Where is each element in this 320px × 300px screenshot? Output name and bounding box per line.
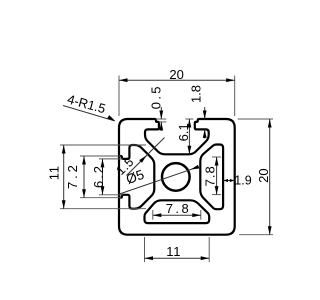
dim bottom 11 [144,237,146,262]
label 1.5 web [127,138,165,176]
svg-text:1.8: 1.8 [189,85,204,103]
svg-text:7.8: 7.8 [203,165,218,186]
svg-text:6.1: 6.1 [176,123,191,141]
svg-text:20: 20 [256,168,271,182]
svg-text:7.8: 7.8 [166,201,192,216]
center hole [162,163,190,191]
svg-text:6.2: 6.2 [91,164,106,188]
dim left 7.2 [80,155,121,157]
svg-text:0.5: 0.5 [149,84,164,109]
dim left 11 [60,144,146,146]
dim 6.1 [185,118,193,120]
svg-text:1.9: 1.9 [234,173,251,187]
right cavity [200,145,223,210]
bottom cavity [145,200,210,223]
dim 1.9 [223,180,235,182]
dim right 20 [238,118,273,120]
svg-text:11: 11 [166,244,181,259]
label 4-R1.5 [63,106,115,121]
svg-text:20: 20 [169,67,183,82]
dim 0.5 [156,118,166,120]
svg-text:11: 11 [46,165,61,180]
dim left 6.2 [99,158,123,160]
label dia 5 [120,167,199,194]
profile outline [119,119,235,235]
dim 1.8 [204,107,206,119]
dim bottom 7.8 [152,210,154,220]
dim right 7.8 [212,156,221,158]
svg-text:7.2: 7.2 [65,162,80,189]
dim top 20 [118,76,120,117]
